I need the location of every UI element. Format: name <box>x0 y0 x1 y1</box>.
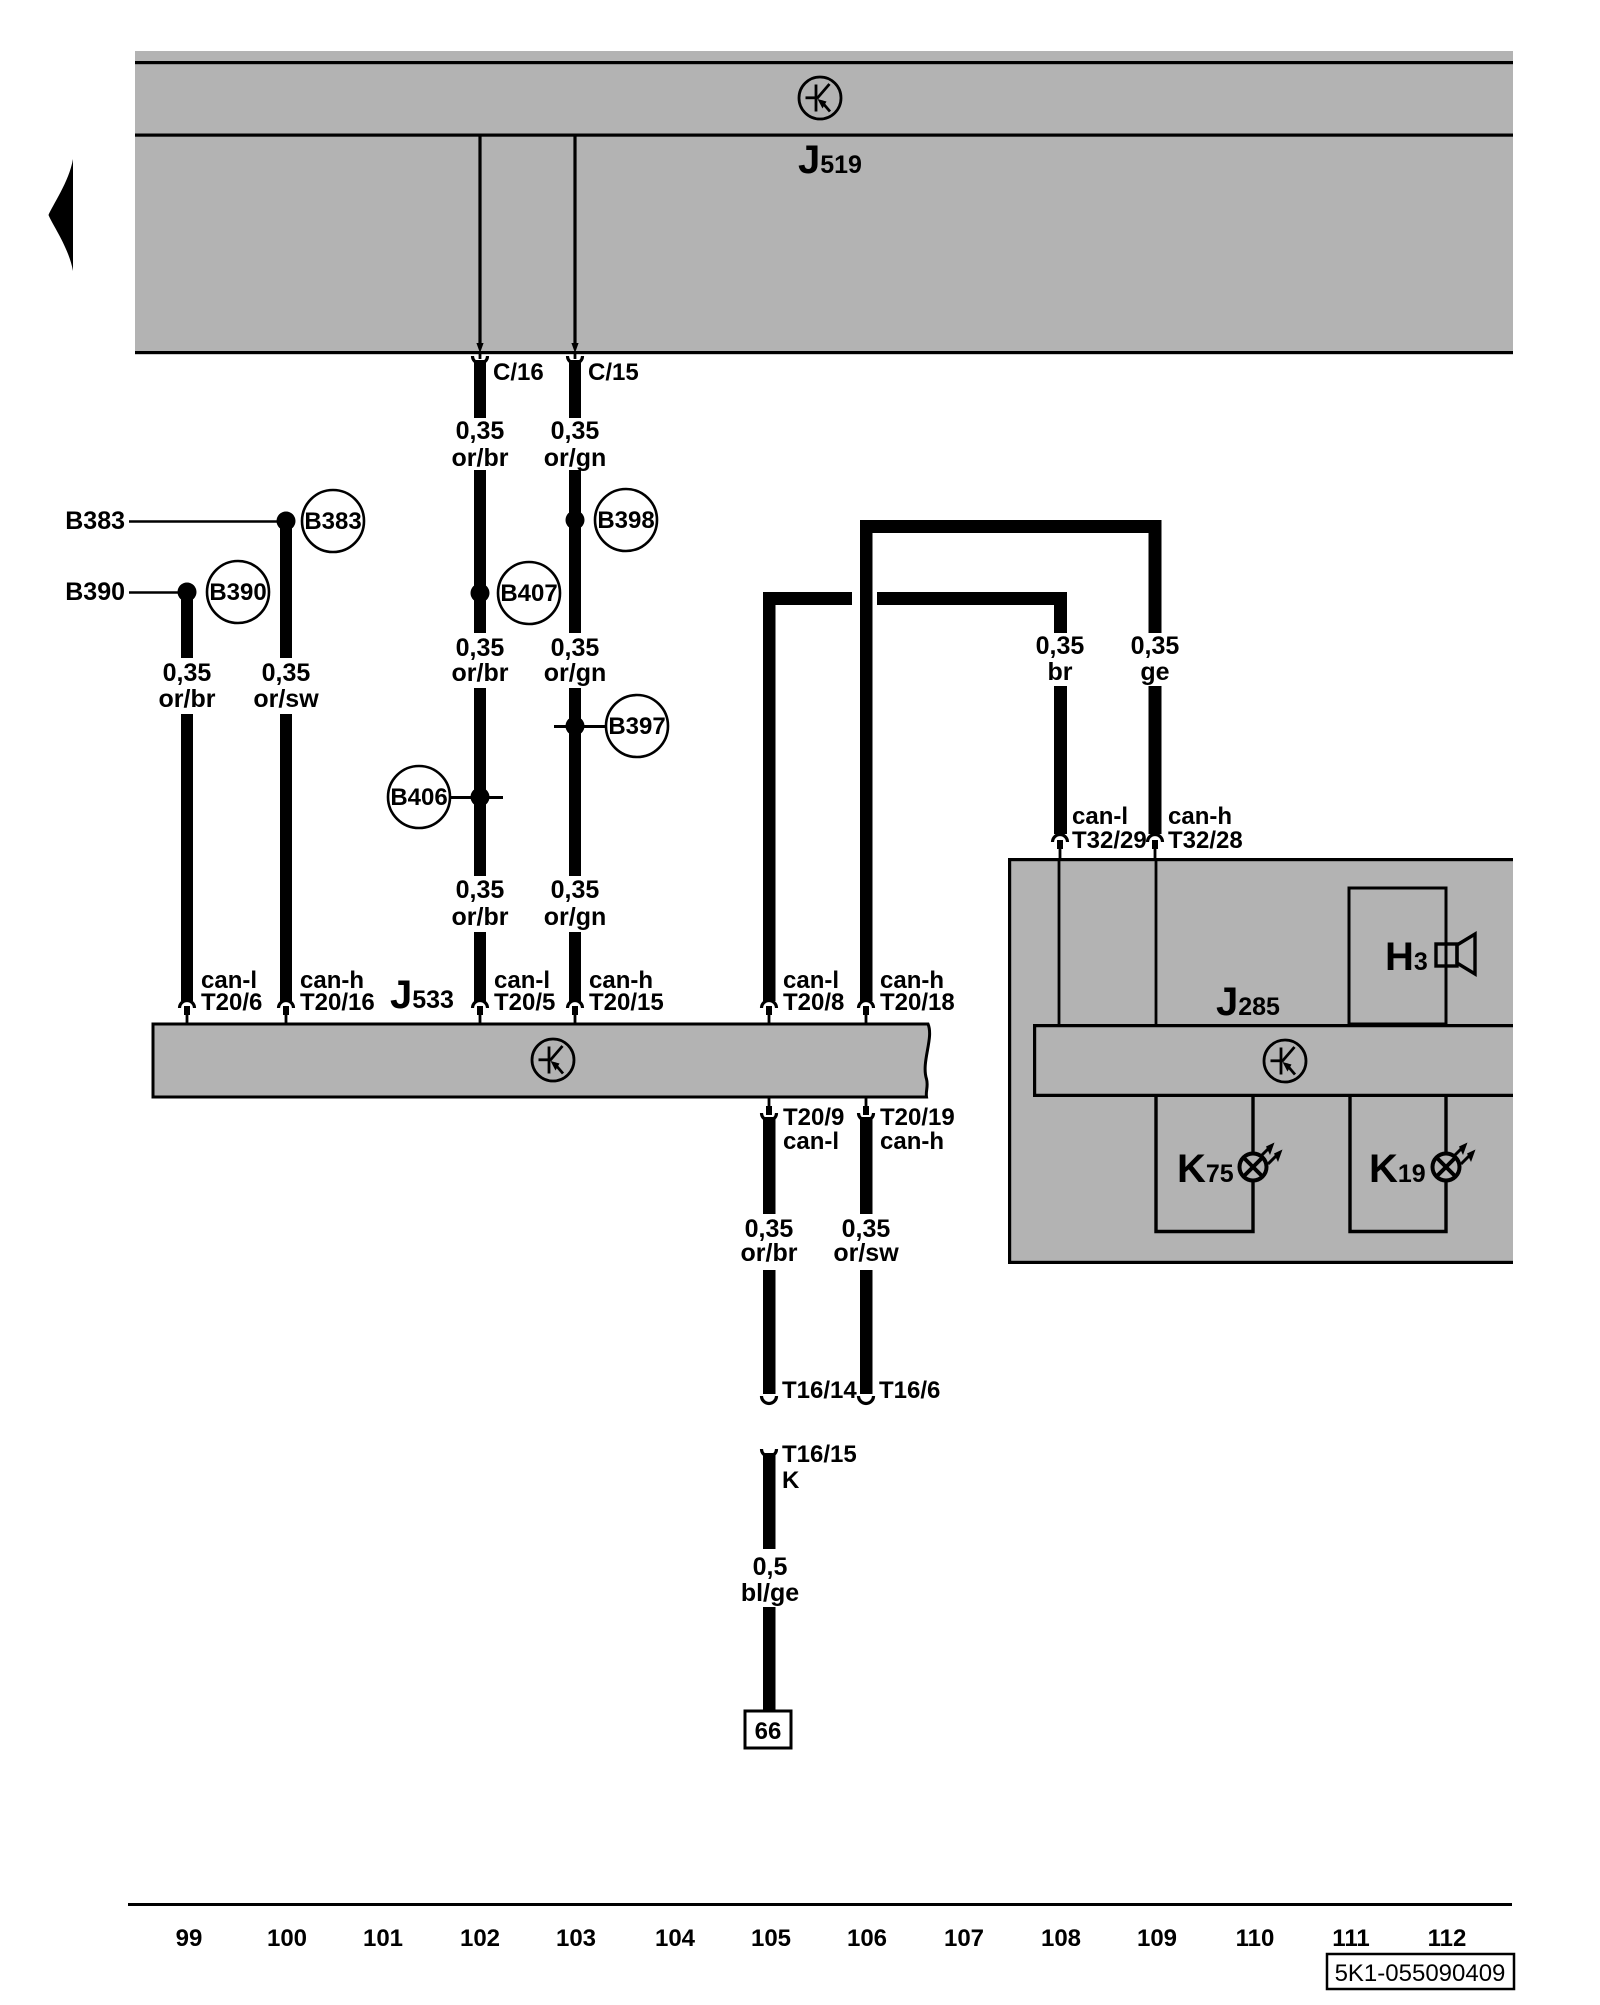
connector T20/18 <box>859 1001 874 1008</box>
svg-text:0,35: 0,35 <box>456 876 505 904</box>
connector T16/6 <box>859 1396 874 1404</box>
svg-text:B383: B383 <box>65 507 125 535</box>
wire can-l bridge horizontal right part <box>877 592 1067 605</box>
connector T32/28 <box>1148 835 1163 843</box>
svg-text:108: 108 <box>1041 1925 1081 1952</box>
wire or/gn bottom segment <box>569 932 581 1002</box>
svg-text:T32/28: T32/28 <box>1168 827 1243 854</box>
H3 frame rect <box>1349 888 1446 1024</box>
svg-text:B390: B390 <box>65 578 125 606</box>
svg-text:111: 111 <box>1332 1925 1369 1952</box>
J519 top border line <box>135 61 1513 64</box>
wire can-h left lower segment <box>280 714 292 1001</box>
junction dot B406 <box>471 788 490 807</box>
svg-text:106: 106 <box>847 1925 887 1952</box>
svg-text:or/gn: or/gn <box>544 444 607 472</box>
control unit J533 bar <box>153 1024 930 1097</box>
wire or/br below bar lower segment <box>763 1270 776 1394</box>
svg-text:102: 102 <box>460 1925 500 1952</box>
junction dot B398 <box>566 511 585 530</box>
svg-text:5K1-055090409: 5K1-055090409 <box>1335 1960 1506 1987</box>
svg-text:or/br: or/br <box>452 903 509 931</box>
connector C/15 <box>568 356 583 364</box>
connector T16/15 <box>762 1449 777 1457</box>
connector T20/19 <box>859 1113 874 1121</box>
junction dot B397 <box>566 717 585 736</box>
splice circle B407 <box>498 562 560 624</box>
wire br vertical lower segment <box>1054 686 1067 834</box>
connector T16/14 <box>762 1396 777 1404</box>
wire K-line lower segment <box>763 1607 776 1711</box>
wire can-h left upper segment <box>280 521 292 658</box>
connector T20/15 <box>568 1001 583 1008</box>
node symbol in J285 <box>1264 1040 1306 1082</box>
svg-text:99: 99 <box>176 1925 203 1952</box>
J285 internal connector rail <box>1033 1024 1513 1097</box>
wire ge vertical upper segment <box>1149 520 1162 633</box>
wire K-line upper segment <box>763 1453 776 1549</box>
junction dot B390 <box>178 583 197 602</box>
svg-text:C/15: C/15 <box>588 359 639 386</box>
svg-text:B407: B407 <box>500 580 557 607</box>
wire or/br lower segment <box>474 688 486 876</box>
ground connection 66 box <box>745 1711 791 1748</box>
svg-text:C/16: C/16 <box>493 359 544 386</box>
svg-text:B397: B397 <box>608 713 665 740</box>
lamp K19 <box>1433 1143 1476 1181</box>
svg-text:T20/5: T20/5 <box>494 989 555 1016</box>
J285 left border <box>1008 858 1011 1264</box>
svg-text:0,35: 0,35 <box>551 876 600 904</box>
wire or/br middle segment <box>474 470 486 633</box>
svg-text:0,35: 0,35 <box>456 417 505 445</box>
wire can-h vertical T20/18 <box>860 520 873 1001</box>
svg-text:T20/16: T20/16 <box>300 989 375 1016</box>
svg-text:0,35: 0,35 <box>456 634 505 662</box>
wire to node B383 <box>129 520 281 523</box>
tick line B406 <box>450 796 503 799</box>
control unit J519 box <box>135 51 1513 354</box>
wire br vertical upper segment <box>1054 592 1067 633</box>
svg-text:B406: B406 <box>390 784 447 811</box>
svg-text:T16/6: T16/6 <box>879 1377 940 1404</box>
wire or/br from C/16 upper segment <box>474 360 486 418</box>
J285 bottom border <box>1008 1261 1513 1264</box>
connector C/16 <box>473 356 488 363</box>
svg-text:ge: ge <box>1140 658 1169 686</box>
svg-text:B398: B398 <box>597 507 654 534</box>
direction arrow left <box>49 159 74 271</box>
svg-text:B390: B390 <box>209 579 266 606</box>
control unit J285 box <box>1008 858 1513 1264</box>
svg-text:0,35: 0,35 <box>1131 632 1180 660</box>
lamp K75 circuit loop <box>1156 1097 1253 1232</box>
track ruler line <box>128 1903 1512 1906</box>
svg-text:T32/29: T32/29 <box>1072 827 1147 854</box>
svg-text:K: K <box>782 1467 800 1494</box>
svg-text:br: br <box>1048 658 1073 686</box>
speaker symbol H3 <box>1436 944 1457 966</box>
svg-text:0,35: 0,35 <box>163 659 212 687</box>
pin line C/15 inside J519 <box>573 136 576 346</box>
lamp K75 <box>1240 1143 1283 1181</box>
svg-text:100: 100 <box>267 1925 307 1952</box>
wire or/gn lower segment <box>569 688 581 876</box>
svg-text:101: 101 <box>363 1925 403 1952</box>
svg-text:T20/18: T20/18 <box>880 989 955 1016</box>
wire to node B390 <box>129 591 182 594</box>
svg-text:112: 112 <box>1428 1925 1467 1952</box>
svg-text:or/gn: or/gn <box>544 659 607 687</box>
wire or/gn middle segment <box>569 470 581 633</box>
junction dot B383 <box>277 512 296 531</box>
wire can-l bridge horizontal left part <box>763 592 852 605</box>
connector T20/8 <box>762 1001 777 1008</box>
wire can-l left upper segment <box>181 592 193 658</box>
svg-text:109: 109 <box>1137 1925 1177 1952</box>
svg-text:110: 110 <box>1236 1925 1275 1952</box>
svg-text:0,35: 0,35 <box>1036 632 1085 660</box>
J285 top border <box>1008 858 1513 861</box>
pin line T32/29 inside J285 <box>1058 858 1061 1024</box>
svg-text:0,5: 0,5 <box>753 1553 788 1581</box>
pin line C/16 inside J519 <box>478 136 481 346</box>
splice circle B406 <box>388 766 450 828</box>
svg-text:66: 66 <box>755 1718 782 1745</box>
svg-text:or/sw: or/sw <box>833 1239 899 1267</box>
wire can-h bridge horizontal <box>860 520 1161 533</box>
wire or/sw below bar upper segment <box>860 1117 873 1214</box>
svg-text:0,35: 0,35 <box>551 417 600 445</box>
svg-text:105: 105 <box>751 1925 791 1952</box>
wire or/gn from C/15 upper segment <box>569 360 581 418</box>
splice circle B390 <box>207 561 269 623</box>
node symbol in J519 <box>799 77 841 119</box>
svg-text:T20/8: T20/8 <box>783 989 844 1016</box>
svg-text:T20/19: T20/19 <box>880 1104 955 1131</box>
connector T20/16 <box>279 1001 294 1008</box>
wire ge vertical lower segment <box>1149 686 1162 834</box>
wire can-l left lower segment <box>181 714 193 1001</box>
svg-text:T20/6: T20/6 <box>201 989 262 1016</box>
svg-text:107: 107 <box>944 1925 984 1952</box>
svg-text:or/br: or/br <box>452 659 509 687</box>
svg-text:can-h: can-h <box>880 1128 944 1155</box>
svg-text:0,35: 0,35 <box>262 659 311 687</box>
svg-text:or/sw: or/sw <box>253 685 319 713</box>
svg-text:or/gn: or/gn <box>544 903 607 931</box>
svg-text:103: 103 <box>556 1925 596 1952</box>
J519 inner separator line <box>135 134 1513 137</box>
svg-text:can-h: can-h <box>1168 803 1232 830</box>
svg-text:or/br: or/br <box>741 1239 798 1267</box>
wire or/sw below bar lower segment <box>860 1270 873 1394</box>
connector T20/9 <box>762 1113 777 1121</box>
wire can-l vertical T20/8 <box>763 592 776 1001</box>
svg-text:104: 104 <box>655 1925 696 1952</box>
connector T20/5 <box>473 1001 488 1008</box>
svg-text:or/br: or/br <box>159 685 216 713</box>
svg-text:can-l: can-l <box>1072 803 1128 830</box>
junction dot B407 <box>471 584 490 603</box>
pin line T32/28 inside J285 <box>1155 858 1158 1024</box>
lamp K19 circuit loop <box>1350 1097 1446 1232</box>
connector T32/29 <box>1053 835 1068 843</box>
wire or/br bottom segment <box>474 932 486 1002</box>
svg-text:T16/15: T16/15 <box>782 1441 857 1468</box>
svg-text:0,35: 0,35 <box>551 634 600 662</box>
splice circle B397 <box>606 695 668 757</box>
splice circle B383 <box>302 490 364 552</box>
connector T20/6 <box>180 1001 195 1008</box>
tick line B397 <box>554 725 606 728</box>
svg-text:bl/ge: bl/ge <box>741 1579 799 1607</box>
svg-text:B383: B383 <box>304 508 361 535</box>
svg-text:T16/14: T16/14 <box>782 1377 857 1404</box>
svg-text:T20/9: T20/9 <box>783 1104 844 1131</box>
svg-text:can-l: can-l <box>783 1128 839 1155</box>
node symbol in J533 <box>532 1039 574 1081</box>
splice circle B398 <box>595 489 657 551</box>
J519 bottom border line <box>135 351 1513 354</box>
svg-text:T20/15: T20/15 <box>589 989 664 1016</box>
svg-text:or/br: or/br <box>452 444 509 472</box>
wire or/br below bar upper segment <box>763 1117 776 1214</box>
diagram code box <box>1327 1954 1514 1989</box>
